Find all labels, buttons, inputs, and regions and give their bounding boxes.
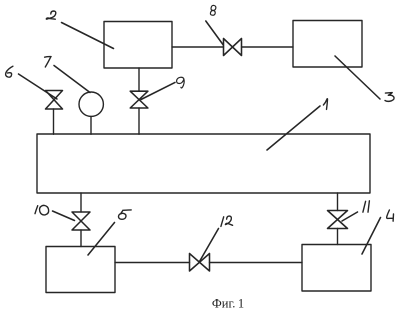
label 12 bbox=[221, 216, 233, 226]
label 9 bbox=[177, 77, 185, 88]
valve 10 bbox=[72, 212, 90, 230]
leader line to 4 bbox=[362, 218, 381, 255]
wire box2 to valve9 bbox=[138, 68, 140, 91]
valve 9 bbox=[130, 91, 148, 108]
wire valve12 to box4 bbox=[210, 262, 303, 264]
leader line to 2 bbox=[62, 23, 114, 49]
wire valve6 to box1 bbox=[53, 109, 55, 134]
svg-text:Фиг. 1: Фиг. 1 bbox=[212, 297, 244, 311]
valve 8 bbox=[224, 39, 242, 56]
valve 12 bbox=[190, 254, 210, 272]
box 5 bbox=[46, 247, 115, 293]
gauge circle 7 bbox=[79, 92, 103, 116]
wire valve9 to box1 bbox=[138, 108, 140, 134]
box 3 bbox=[293, 21, 362, 68]
leader line to 10 bbox=[53, 211, 75, 221]
leader line to 11 bbox=[342, 212, 358, 221]
box 2 bbox=[104, 22, 172, 69]
leader line to 12 bbox=[200, 229, 219, 262]
wire box1 to valve11 bbox=[337, 193, 339, 211]
wire box1 to valve10 bbox=[80, 193, 82, 212]
label 8 bbox=[210, 5, 215, 15]
leader line to 5 bbox=[88, 223, 115, 256]
wire valve8 to box3 bbox=[242, 46, 294, 48]
label 2 bbox=[46, 11, 56, 19]
box 4 bbox=[302, 245, 371, 292]
leader line to 8 bbox=[206, 21, 224, 45]
label 1 bbox=[323, 99, 327, 110]
valve 11 bbox=[328, 211, 348, 229]
label 4 bbox=[387, 210, 394, 221]
label 6 bbox=[6, 66, 13, 77]
leader line to 9 bbox=[141, 82, 175, 99]
leader line to 3 bbox=[335, 56, 380, 99]
wire valve11 to box4 bbox=[337, 229, 339, 245]
wire circle7 to box1 bbox=[90, 116, 92, 134]
leader line to 7 bbox=[54, 66, 90, 93]
label 7 bbox=[45, 57, 52, 67]
label 11 bbox=[363, 201, 370, 212]
wire box5 to valve12 bbox=[115, 262, 190, 264]
vessel box 1 bbox=[37, 134, 370, 193]
leader line to 1 bbox=[267, 106, 320, 150]
valve 6 bbox=[46, 91, 63, 110]
label 5 bbox=[119, 210, 132, 219]
label 3 bbox=[385, 93, 394, 102]
leader line to 6 bbox=[19, 74, 58, 99]
wire valve10 to box5 bbox=[80, 230, 82, 247]
label 10 bbox=[35, 205, 49, 215]
wire box2 to valve8 bbox=[172, 46, 224, 48]
